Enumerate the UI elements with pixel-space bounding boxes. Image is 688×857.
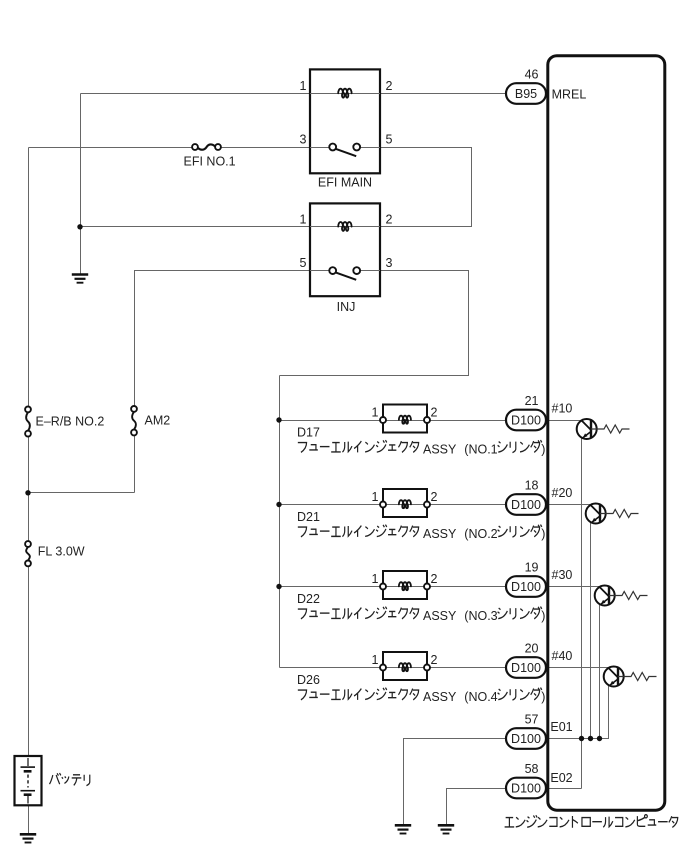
node: bus row1: [276, 417, 281, 422]
svg-text:D22: D22: [297, 592, 320, 606]
svg-text:): ): [541, 443, 545, 457]
svg-text:EFI MAIN: EFI MAIN: [318, 175, 372, 189]
svg-text:1: 1: [372, 653, 379, 667]
svg-text:): ): [541, 609, 545, 623]
wire: x28 FL fuse to battery: [28, 567, 30, 757]
wire: battery to ground: [28, 806, 30, 835]
svg-text:5: 5: [300, 256, 307, 270]
wire: injector row 4 bus to injector: [280, 667, 381, 669]
wire: E01 internal rail: [547, 686, 609, 739]
ground under x80 line: [72, 275, 88, 283]
battery box: [15, 756, 42, 805]
svg-text:58: 58: [525, 762, 539, 776]
battery plates: [21, 758, 36, 804]
fusible link FL 3.0W: [25, 541, 31, 566]
svg-text:B95: B95: [515, 87, 537, 101]
svg-text:E02: E02: [550, 771, 572, 785]
svg-text:1: 1: [372, 490, 379, 504]
connector B95 pin 46 (MREL): [506, 83, 546, 104]
svg-text:D100: D100: [511, 661, 541, 675]
injector D21 japanese label: [298, 525, 542, 538]
svg-text:E01: E01: [550, 720, 572, 734]
node: E01 rail junction 3: [597, 736, 602, 741]
resistor at transistor Q4 base: [618, 673, 657, 681]
wire: injector row 4 injector to D100: [431, 667, 508, 669]
wire: row 3 ECU pin to transistor collector: [547, 586, 600, 588]
relay EFI MAIN box: [310, 69, 380, 173]
connector D100 pin 20 row 4: [506, 657, 546, 678]
fuse AM2: [131, 406, 137, 435]
svg-text:ASSY: ASSY: [423, 609, 457, 623]
svg-text:#10: #10: [552, 402, 573, 416]
relay EFI MAIN switch: [310, 144, 380, 157]
svg-text:57: 57: [525, 713, 539, 727]
wire: EFI MAIN pin5 right and down to INJ pin2: [381, 148, 472, 227]
ground for E02: [438, 825, 454, 833]
svg-text:ASSY: ASSY: [423, 443, 457, 457]
injector D22 (cylinder NO.3): [380, 571, 430, 599]
wire: injector bus vertical x279: [279, 376, 281, 668]
fuse E-R/B NO.2: [25, 407, 31, 437]
wire: EFI MAIN pin2 to B95: [381, 93, 508, 95]
injector D26 (cylinder NO.4): [380, 652, 430, 680]
svg-text:D100: D100: [511, 732, 541, 746]
svg-text:21: 21: [525, 394, 539, 408]
svg-text:D100: D100: [511, 498, 541, 512]
svg-text:5: 5: [386, 133, 393, 147]
ground for E01: [395, 825, 411, 833]
injector D21 (cylinder NO.2): [380, 489, 430, 517]
relay INJ coil: [310, 226, 380, 228]
relay EFI MAIN coil: [310, 93, 380, 95]
relay INJ switch: [310, 267, 380, 280]
svg-text:1: 1: [372, 572, 379, 586]
wire: transistor 1 emitter down to E01 rail: [581, 430, 583, 789]
transistor Q2 for #20: [586, 504, 606, 524]
svg-text:2: 2: [431, 490, 438, 504]
svg-text:20: 20: [525, 642, 539, 656]
connector D100 pin 58 (E02): [506, 778, 546, 799]
node: bus row2: [276, 502, 281, 507]
wire: transistor 3 emitter down to E01 rail: [599, 596, 601, 739]
transistor Q3 for #30: [595, 586, 615, 606]
svg-text:#20: #20: [552, 486, 573, 500]
wire: left vertical x28 from y147 to E-R/B fuse: [28, 148, 30, 407]
wire: row 1 ECU pin to transistor collector: [547, 420, 582, 422]
connector D100 pin 18 row 2: [506, 494, 546, 515]
resistor at transistor Q1 base: [591, 425, 630, 433]
svg-text:(NO.1: (NO.1: [464, 443, 497, 457]
connector D100 pin 19 row 3: [506, 576, 546, 597]
transistor Q1 for #10: [577, 419, 597, 439]
wire: AM2 branch joins main at y493: [29, 492, 135, 494]
node: E01 rail junction 1: [579, 736, 584, 741]
svg-text:1: 1: [300, 212, 307, 226]
svg-text:): ): [541, 690, 545, 704]
wire: injector row 2 bus to injector: [280, 504, 381, 506]
wire: EFI NO.1 fuse line y147: [29, 147, 193, 149]
svg-text:D100: D100: [511, 781, 541, 795]
svg-text:2: 2: [431, 572, 438, 586]
resistor at transistor Q2 base: [600, 510, 639, 518]
svg-text:AM2: AM2: [145, 414, 171, 428]
svg-text:ASSY: ASSY: [423, 527, 457, 541]
wire: row 2 ECU pin to transistor collector: [547, 504, 591, 506]
resistor at transistor Q3 base: [609, 592, 648, 600]
svg-text:1: 1: [372, 406, 379, 420]
ECU box: engine control computer: [548, 56, 665, 811]
wire: x28 between fuses / to FL: [28, 437, 30, 542]
fuse EFI NO.1: [192, 144, 221, 150]
svg-text:D100: D100: [511, 580, 541, 594]
battery label (katakana): [50, 773, 90, 786]
svg-text:): ): [541, 527, 545, 541]
wire: INJ pin3 right, down, left to injector bus: [280, 271, 469, 376]
transistor Q4 for #40: [604, 667, 624, 687]
svg-text:2: 2: [431, 653, 438, 667]
wire: E02 to left ground: [447, 789, 508, 826]
node: x80/INJ pin1 junction: [77, 224, 82, 229]
injector D22 japanese label: [298, 607, 542, 620]
wire: row 4 ECU pin to transistor collector: [547, 667, 609, 669]
node: bus row3: [276, 584, 281, 589]
wire: INJ pin5 left and down to AM2 fuse: [135, 271, 311, 407]
wire: injector row 3 injector to D100: [431, 586, 508, 588]
connector D100 pin 57 (E01): [506, 728, 546, 749]
svg-text:INJ: INJ: [337, 300, 356, 314]
svg-text:(NO.2: (NO.2: [464, 527, 497, 541]
svg-text:46: 46: [525, 68, 539, 82]
svg-text:D17: D17: [297, 426, 320, 440]
svg-text:EFI NO.1: EFI NO.1: [184, 155, 236, 169]
svg-text:18: 18: [525, 479, 539, 493]
svg-text:ASSY: ASSY: [423, 690, 457, 704]
wire: EFI MAIN pin1 to left vertical: [81, 93, 311, 95]
injector D17 (cylinder NO.1): [380, 405, 430, 433]
wire: injector row 3 bus to injector: [280, 586, 381, 588]
relay INJ box: [310, 203, 380, 296]
wire: injector row 1 injector to D100: [431, 420, 508, 422]
svg-text:D100: D100: [511, 413, 541, 427]
wire: injector row 1 bus to injector: [280, 420, 381, 422]
injector D17 japanese label: [298, 440, 542, 453]
svg-text:2: 2: [386, 212, 393, 226]
wire: E02 internal rail: [547, 788, 582, 790]
svg-text:3: 3: [386, 256, 393, 270]
svg-text:19: 19: [525, 561, 539, 575]
node: AM2/main junction y493: [25, 490, 30, 495]
wire: transistor 4 emitter down to E01 rail: [608, 677, 610, 739]
svg-text:3: 3: [300, 133, 307, 147]
svg-text:(NO.4: (NO.4: [464, 690, 497, 704]
node: E01 rail junction 2: [588, 736, 593, 741]
wire: injector row 2 injector to D100: [431, 504, 508, 506]
svg-text:(NO.3: (NO.3: [464, 609, 497, 623]
connector D100 pin 21 row 1: [506, 410, 546, 431]
svg-text:FL 3.0W: FL 3.0W: [38, 545, 85, 559]
ground under battery: [20, 834, 36, 842]
wire: INJ pin1 to x80 vertical: [81, 226, 311, 228]
wire: E01 to left ground: [404, 739, 508, 826]
svg-text:MREL: MREL: [552, 88, 587, 102]
wire: AM2 fuse down to junction y493: [134, 436, 136, 493]
svg-text:2: 2: [431, 406, 438, 420]
injector D26 japanese label: [298, 688, 542, 701]
wire: transistor 2 emitter down to E01 rail: [590, 514, 592, 739]
svg-text:2: 2: [386, 79, 393, 93]
svg-text:#30: #30: [552, 568, 573, 582]
svg-text:D21: D21: [297, 510, 320, 524]
svg-text:1: 1: [300, 79, 307, 93]
ECU label (katakana): engine control computer: [505, 815, 678, 828]
svg-text:#40: #40: [552, 649, 573, 663]
svg-text:E–R/B NO.2: E–R/B NO.2: [36, 415, 105, 429]
wire: left vertical x80 down to ground: [80, 94, 82, 275]
svg-text:D26: D26: [297, 673, 320, 687]
